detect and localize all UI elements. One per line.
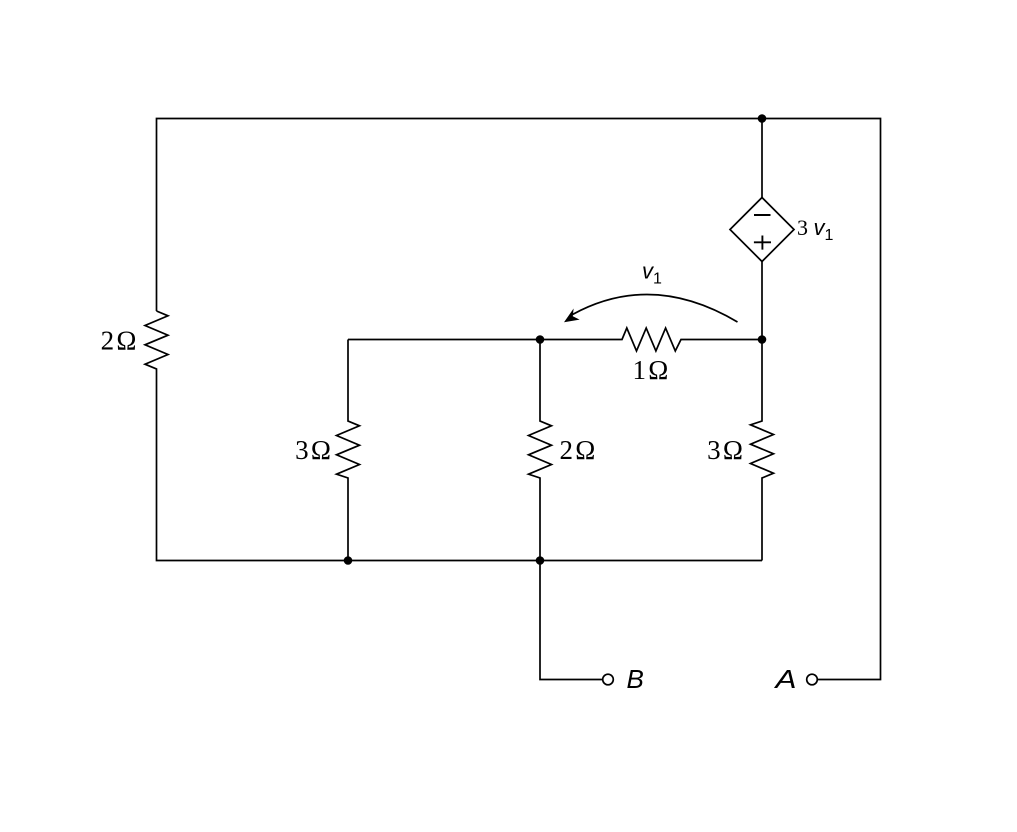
svg-text:2 Ω: 2 Ω [101,326,137,356]
svg-text:3 Ω: 3 Ω [707,435,743,465]
svg-text:v1: v1 [642,258,662,287]
svg-text:A: A [773,664,796,694]
svg-text:1 Ω: 1 Ω [633,355,669,385]
svg-text:3 Ω: 3 Ω [295,435,331,465]
svg-text:3 v1: 3 v1 [797,215,834,244]
svg-text:B: B [627,664,644,694]
svg-text:2 Ω: 2 Ω [560,435,596,465]
